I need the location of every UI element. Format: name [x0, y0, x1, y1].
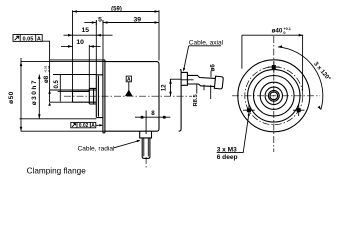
flange rim front face: [103, 60, 105, 133]
dimension 8: [135, 110, 170, 134]
shaft o8 with flat: [73, 90, 97, 102]
radial cable tube: [142, 138, 150, 159]
radial cable boss: [140, 131, 152, 138]
extension line body bottom o50: [21, 130, 105, 132]
extension line body top o50: [21, 61, 105, 63]
svg-text:ø40: ø40: [272, 28, 283, 35]
svg-text:(59): (59): [111, 6, 122, 12]
svg-text:0.05: 0.05: [22, 37, 33, 43]
svg-text:15: 15: [82, 27, 90, 34]
label R8.5: [193, 85, 211, 107]
annotation arc 3x120: [278, 45, 332, 110]
extension line shaft tip: [72, 10, 74, 90]
dimension 12: [161, 79, 181, 96]
svg-text:0.02: 0.02: [79, 123, 89, 129]
extension line collar top: [53, 74, 96, 76]
front view centerlines: [273, 36, 275, 152]
svg-text:-0.02: -0.02: [47, 65, 51, 72]
label cable radial: [78, 140, 141, 152]
rear face: [179, 70, 181, 132]
label o6 cable: [210, 64, 217, 78]
extension line flange rim top: [50, 59, 103, 61]
shaft flat line: [73, 90, 90, 91]
svg-text:Cable, radial: Cable, radial: [78, 145, 116, 152]
extension line flange face: [102, 21, 104, 60]
dimension (59): [73, 6, 160, 12]
centerline side view: [64, 95, 192, 97]
shaft step stub: [89, 88, 96, 104]
dimension o8: [43, 65, 51, 105]
dimension 39: [103, 17, 159, 24]
front view shaft circles: [268, 90, 279, 101]
svg-text:R8.5: R8.5: [193, 93, 199, 106]
axial cable ferrule: [214, 76, 223, 89]
axial cable core line: [182, 79, 194, 81]
extension line collar face: [95, 21, 97, 75]
svg-text:10: 10: [76, 39, 84, 46]
body outline o50: [105, 62, 159, 132]
svg-text:ø8: ø8: [43, 75, 50, 83]
front view boss circle: [260, 82, 287, 109]
svg-text:0.5: 0.5: [54, 79, 60, 88]
fcf bottom 0.02 A: [71, 122, 96, 129]
dimension 0.5: [54, 79, 60, 88]
extension line shaft bottom o8: [50, 101, 73, 103]
dimension o40 bolt circle: [242, 27, 303, 91]
fcf leader: [42, 41, 49, 102]
dimension o30h7: [31, 75, 41, 119]
front view seal circle: [265, 87, 282, 104]
cable boss axial: [181, 72, 187, 85]
svg-text:5: 5: [98, 17, 102, 24]
svg-text:ø30h7: ø30h7: [31, 79, 38, 105]
svg-text:A: A: [37, 37, 41, 43]
svg-text:6 deep: 6 deep: [217, 154, 238, 161]
svg-text:39: 39: [134, 17, 142, 24]
label 3xM3 6 deep: [217, 112, 250, 161]
fcf bottom leader: [96, 124, 102, 126]
svg-text:Clamping flange: Clamping flange: [27, 166, 87, 175]
svg-text:ø6: ø6: [210, 64, 217, 72]
svg-text:A: A: [91, 123, 95, 129]
label cable axial: [183, 40, 224, 72]
dimension 5: [84, 17, 103, 25]
extension line shaft flat: [58, 90, 73, 92]
bolt hole left: [243, 104, 255, 116]
front view outer circle: [238, 60, 310, 132]
datum A symbol: [125, 76, 133, 96]
extension line collar bottom: [20, 118, 97, 120]
fcf runout 0.05 A: [13, 35, 42, 43]
front view collar circle: [253, 76, 294, 117]
radial cable centerline: [145, 157, 147, 169]
bolt hole top: [268, 61, 280, 73]
bolt hole right: [293, 104, 305, 116]
svg-text:8: 8: [151, 110, 155, 117]
dimension o50: [8, 58, 22, 131]
collar o30h7: [96, 75, 103, 118]
extension line shaft top o8: [50, 89, 73, 91]
front view rear circle: [248, 70, 300, 122]
svg-text:0: 0: [283, 31, 285, 35]
extension line body rear: [158, 10, 160, 60]
axial cable tube: [187, 75, 215, 86]
dimension 10: [61, 39, 101, 48]
svg-text:ø50: ø50: [8, 91, 15, 104]
svg-text:12: 12: [161, 84, 168, 91]
leader 0.5 flat: [59, 75, 61, 102]
dimension 15: [64, 27, 113, 37]
bolt circle: [245, 67, 303, 125]
extension line o8 step: [88, 45, 90, 89]
